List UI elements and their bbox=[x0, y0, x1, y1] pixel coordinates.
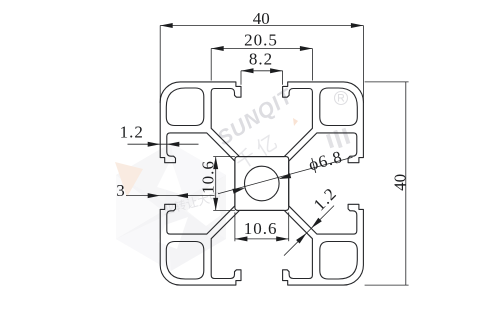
dimension texts bbox=[116, 9, 409, 238]
dimension 8.2 line bbox=[241, 70, 283, 72]
profile cross-section drawing bbox=[160, 82, 363, 285]
dimension phi6.8 leader line bbox=[218, 157, 353, 194]
dimension 40 right line bbox=[405, 82, 407, 285]
svg-text:3: 3 bbox=[116, 181, 125, 200]
arrows 10.6 vertical bbox=[213, 157, 218, 170]
svg-text:8.2: 8.2 bbox=[249, 50, 273, 69]
watermark logo group bbox=[115, 84, 350, 271]
dimension 40 top line bbox=[160, 25, 363, 27]
dimension 1.2 left leader line bbox=[128, 143, 199, 145]
dimension arrowheads bbox=[148, 23, 364, 244]
dimension 10.6 vertical line bbox=[215, 157, 217, 211]
svg-text:1.2: 1.2 bbox=[120, 122, 144, 141]
dimension 10.6 horizontal extension lines bbox=[234, 212, 236, 241]
dimension 10.6 horizontal line bbox=[235, 238, 289, 240]
arrows 10.6 horizontal bbox=[235, 236, 248, 241]
dimension 8.2 extension lines bbox=[240, 71, 242, 85]
arrows phi6.8 bbox=[232, 188, 245, 194]
arrows 3 left bbox=[148, 193, 161, 198]
svg-text:1.2: 1.2 bbox=[310, 184, 341, 215]
watermark diamond logo bbox=[115, 143, 226, 271]
svg-text:ϕ6.8: ϕ6.8 bbox=[307, 147, 345, 174]
dimension annotations bbox=[126, 26, 409, 286]
svg-text:40: 40 bbox=[253, 9, 270, 28]
dimension 1.2 diagonal line bbox=[284, 206, 334, 256]
dimension 40 top extension lines bbox=[159, 26, 161, 104]
center square tube bbox=[235, 157, 289, 211]
arrows 40 top bbox=[160, 23, 173, 28]
watermark registered mark bbox=[335, 92, 348, 105]
dimension 10.6 vertical extension lines bbox=[213, 156, 235, 158]
corner cavity top-left bbox=[166, 88, 204, 126]
svg-text:10.6: 10.6 bbox=[244, 219, 278, 238]
svg-text:20.5: 20.5 bbox=[244, 30, 278, 49]
watermark small icon right bbox=[326, 128, 350, 149]
dimension 40 right extension lines bbox=[365, 81, 409, 83]
corner cavity top-right bbox=[320, 88, 358, 126]
arrows 20.5 bbox=[211, 46, 224, 51]
profile outer outline with four T-slots bbox=[160, 82, 363, 285]
dimension 20.5 extension lines bbox=[210, 49, 212, 81]
svg-text:10.6: 10.6 bbox=[199, 160, 218, 194]
dimension 3 left leader line bbox=[126, 195, 215, 197]
svg-text:40: 40 bbox=[390, 174, 409, 191]
dimension 20.5 line bbox=[211, 48, 312, 50]
arrows 1.2 left bbox=[148, 142, 161, 147]
watermark orange accent bbox=[293, 118, 298, 126]
arrows 1.2 diagonal bbox=[311, 218, 322, 229]
corner cavity bottom-right bbox=[320, 242, 358, 280]
arrows 8.2 bbox=[241, 68, 254, 73]
corner cavity bottom-left bbox=[166, 242, 204, 280]
center hole circle bbox=[244, 166, 279, 201]
